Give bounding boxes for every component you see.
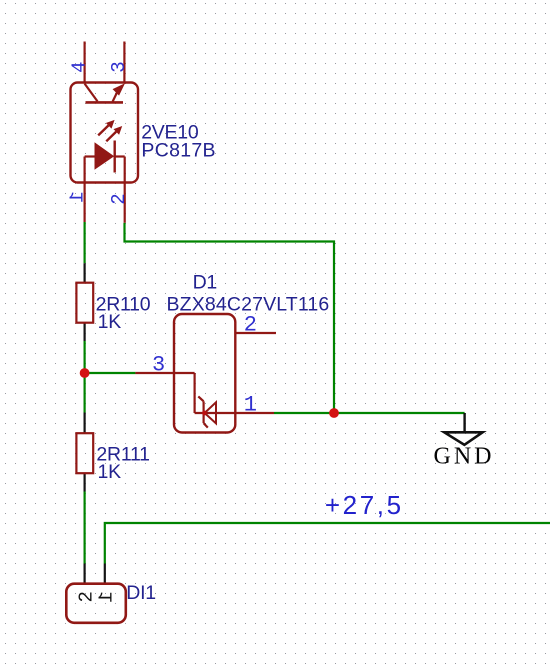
svg-text:1K: 1K — [98, 461, 122, 483]
svg-text:+27,5: +27,5 — [325, 490, 404, 520]
svg-text:1K: 1K — [98, 311, 122, 333]
svg-text:1: 1 — [96, 591, 118, 602]
svg-text:1: 1 — [244, 393, 257, 418]
svg-text:3: 3 — [108, 61, 130, 72]
svg-text:4: 4 — [68, 61, 90, 72]
svg-text:D1: D1 — [193, 272, 217, 294]
svg-text:GND: GND — [434, 443, 495, 469]
svg-text:PC817B: PC817B — [141, 140, 215, 162]
svg-text:3: 3 — [152, 353, 165, 378]
svg-text:2: 2 — [244, 313, 257, 338]
svg-text:2: 2 — [76, 591, 98, 602]
svg-text:2: 2 — [108, 193, 130, 204]
svg-text:DI1: DI1 — [126, 582, 156, 604]
svg-text:1: 1 — [67, 191, 89, 202]
